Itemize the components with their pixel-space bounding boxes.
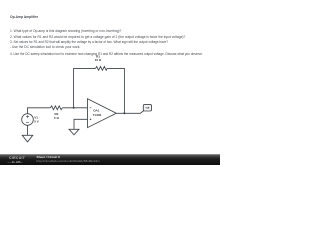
junction node at output / feedback [123, 112, 125, 114]
ground under op-amp plus input [69, 129, 79, 135]
output flag [143, 105, 151, 111]
wire plus input to ground [74, 119, 88, 129]
svg-text:out: out [145, 107, 149, 110]
svg-text:5 V: 5 V [34, 119, 39, 123]
svg-text:TL081: TL081 [93, 113, 102, 117]
circuit schematic [0, 0, 220, 165]
wire V1 top to R2 [28, 108, 51, 114]
op-amp OA1 triangle [88, 99, 117, 128]
ground under V1 [22, 135, 33, 142]
op-amp minus pin mark [90, 107, 92, 109]
resistor R2 [50, 106, 62, 110]
voltage source V1 [22, 114, 34, 126]
wire feedback left vertical [74, 68, 96, 107]
svg-text:OA1: OA1 [93, 109, 100, 113]
op-amp plus pin mark [90, 118, 92, 120]
wire feedback right vertical [107, 68, 124, 113]
resistor R1 [96, 67, 108, 71]
wire R2 to op-amp inverting input [62, 107, 87, 109]
svg-text:5 Ω: 5 Ω [54, 116, 60, 120]
bottom bar [0, 154, 220, 165]
wire V1 bottom to ground [27, 125, 29, 135]
svg-text:10 Ω: 10 Ω [95, 58, 102, 62]
junction node at R2 / feedback [73, 107, 75, 109]
wire op-amp output [116, 111, 143, 113]
